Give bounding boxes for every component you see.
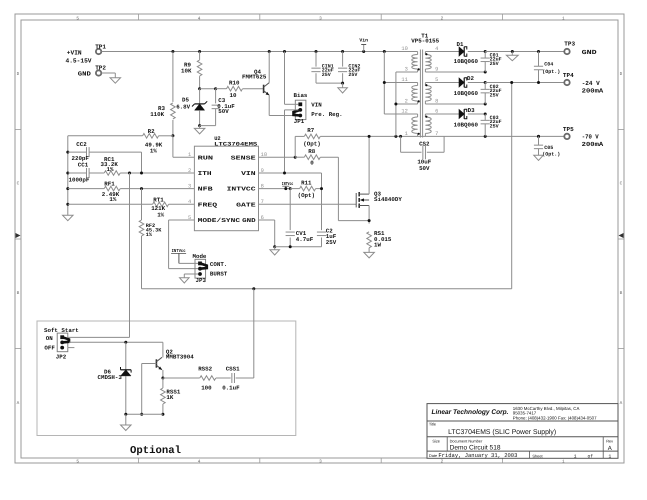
wire soft-start bottom bbox=[126, 413, 163, 415]
svg-text:-70 V: -70 V bbox=[582, 133, 599, 140]
junction rail primary riser bbox=[383, 50, 386, 53]
resistor R7 bbox=[295, 127, 321, 148]
svg-text:Linear Technology Corp.: Linear Technology Corp. bbox=[432, 409, 509, 416]
junction bus D2 bbox=[484, 81, 487, 84]
test point TP1 bbox=[95, 43, 106, 54]
svg-text:Optional: Optional bbox=[130, 445, 181, 457]
junction D6 top bbox=[124, 341, 127, 344]
resistor RC1 bbox=[90, 156, 195, 175]
svg-text:TP4: TP4 bbox=[563, 72, 574, 79]
svg-text:1%: 1% bbox=[157, 212, 164, 219]
svg-text:ON: ON bbox=[46, 335, 53, 342]
svg-text:1%: 1% bbox=[109, 196, 116, 203]
wire D5 node to C3 bbox=[200, 88, 216, 90]
wire R2 to left bus bbox=[68, 135, 143, 137]
resistor R8 bbox=[295, 148, 320, 167]
resistor R11 bbox=[290, 179, 321, 199]
svg-text:MMBT3904: MMBT3904 bbox=[166, 354, 194, 361]
svg-text:25V: 25V bbox=[490, 123, 499, 129]
svg-text:6.8V: 6.8V bbox=[176, 103, 190, 110]
svg-text:Mode: Mode bbox=[193, 253, 207, 260]
svg-text:TP2: TP2 bbox=[95, 65, 106, 72]
svg-text:BURST: BURST bbox=[210, 270, 228, 277]
svg-text:JP1: JP1 bbox=[294, 118, 305, 125]
label Pre. Reg. bbox=[311, 111, 342, 118]
wire -24V row bbox=[485, 82, 564, 84]
junction rail Q4 collector bbox=[268, 50, 271, 53]
svg-text:50V: 50V bbox=[419, 165, 430, 172]
diode D3 10BQ060 bbox=[454, 107, 479, 129]
svg-text:CSS1: CSS1 bbox=[226, 365, 240, 372]
junction bus CC2 bbox=[66, 151, 69, 154]
label JP1 VIN bbox=[311, 102, 322, 109]
wire RS1 to ground bbox=[368, 248, 370, 253]
op-amp U2 LTC3704EMS bbox=[188, 136, 267, 231]
junction D5 top bbox=[198, 87, 201, 90]
svg-text:Phone: (408)432-1900 Fax: (408: Phone: (408)432-1900 Fax: (408)434-0507 bbox=[513, 415, 597, 420]
svg-text:3: 3 bbox=[319, 16, 322, 21]
capacitor C03 bbox=[481, 114, 502, 136]
wire feedback riser to -24V bbox=[511, 83, 513, 289]
wire CSS1 to feedback bbox=[236, 289, 254, 378]
junction rail JP1 bbox=[283, 50, 286, 53]
svg-text:GND: GND bbox=[242, 217, 256, 224]
diode D6 CMDSH-3 bbox=[98, 342, 132, 381]
wire D5 cathode bbox=[199, 89, 201, 104]
wire JP2 OFF stub bbox=[68, 347, 75, 349]
svg-text:GATE: GATE bbox=[236, 201, 256, 208]
test point TP4 bbox=[563, 72, 574, 85]
wire left bus bbox=[67, 136, 69, 215]
svg-text:C: C bbox=[620, 181, 623, 186]
junction rail CIN2 bbox=[341, 50, 344, 53]
svg-text:25V: 25V bbox=[490, 92, 499, 98]
svg-text:10K: 10K bbox=[181, 67, 192, 74]
svg-text:LTC3704EMS: LTC3704EMS bbox=[214, 141, 258, 147]
svg-text:A: A bbox=[17, 401, 20, 406]
svg-text:FREQ: FREQ bbox=[198, 201, 218, 208]
svg-text:200mA: 200mA bbox=[582, 88, 604, 95]
junction rail Vin flag bbox=[362, 50, 365, 53]
net flag INTVcc at JP3 bbox=[171, 248, 198, 263]
junction ITH soft-start bbox=[128, 172, 131, 175]
capacitor CV1 bbox=[286, 189, 314, 247]
svg-text:1: 1 bbox=[609, 454, 612, 460]
junction INTVCC CV1 bbox=[289, 187, 292, 190]
svg-text:D: D bbox=[17, 72, 20, 77]
junction Q2 base bottom bbox=[140, 413, 143, 416]
junction feedback CSS1 bbox=[252, 287, 255, 290]
label -70V bbox=[582, 133, 604, 148]
wire D6 anode bbox=[125, 376, 127, 414]
svg-text:FMMT625: FMMT625 bbox=[242, 74, 267, 81]
svg-text:5: 5 bbox=[76, 16, 79, 21]
svg-text:4.5-15V: 4.5-15V bbox=[66, 57, 92, 64]
wire R7 riser bbox=[294, 136, 296, 157]
svg-text:R11: R11 bbox=[301, 179, 312, 186]
junction NFB RF2 bbox=[140, 187, 143, 190]
junction bus RF1 bbox=[66, 187, 69, 190]
svg-text:Rev: Rev bbox=[606, 438, 613, 443]
junction C05 bbox=[537, 135, 540, 138]
wire JP3 BURST to ground bbox=[184, 274, 198, 278]
junction C3 top bbox=[214, 87, 217, 90]
junction C04 bottom bbox=[537, 81, 540, 84]
capacitor C02 bbox=[481, 83, 502, 105]
svg-text:10: 10 bbox=[401, 46, 407, 52]
jumper JP2 bbox=[57, 333, 69, 352]
optional box bbox=[37, 321, 296, 436]
junction RSS1 bottom bbox=[161, 413, 164, 416]
svg-text:R10: R10 bbox=[229, 79, 240, 86]
wire pin8 to bus bbox=[425, 103, 485, 105]
svg-text:200mA: 200mA bbox=[582, 141, 604, 148]
jumper JP1 bbox=[294, 100, 306, 119]
svg-text:Sheet: Sheet bbox=[532, 453, 543, 458]
wire pin9 to bus bbox=[425, 71, 485, 73]
junction C05 row bbox=[537, 135, 540, 138]
svg-text:25V: 25V bbox=[348, 72, 357, 78]
svg-text:JP3: JP3 bbox=[196, 277, 207, 284]
svg-text:B: B bbox=[17, 291, 20, 296]
svg-text:R7: R7 bbox=[307, 127, 314, 134]
svg-text:A: A bbox=[620, 401, 623, 406]
wire SENSE pin bbox=[259, 156, 296, 158]
junction rail CIN1 bbox=[315, 50, 318, 53]
wire D1 to bus bbox=[468, 51, 485, 53]
title block bbox=[427, 404, 618, 460]
wire NFB to RF2 bbox=[141, 189, 143, 220]
wire JP2 common bbox=[69, 341, 163, 343]
svg-text:NFB: NFB bbox=[198, 186, 214, 193]
wire Q4 emitter bbox=[269, 95, 298, 115]
svg-text:4: 4 bbox=[198, 16, 201, 21]
svg-text:of: of bbox=[588, 454, 594, 460]
capacitor CC1 bbox=[68, 162, 90, 184]
resistor R3 bbox=[150, 103, 175, 119]
svg-text:10BQ060: 10BQ060 bbox=[454, 58, 479, 65]
wire R2 right bbox=[159, 135, 173, 137]
wire feedback row bbox=[142, 288, 512, 290]
svg-text:1: 1 bbox=[574, 454, 577, 460]
svg-text:RT1: RT1 bbox=[153, 196, 164, 203]
junction bus pin9 bbox=[484, 71, 487, 74]
resistor RS1 bbox=[367, 230, 392, 248]
svg-text:25V: 25V bbox=[326, 239, 337, 246]
svg-text:Size: Size bbox=[432, 438, 440, 443]
svg-text:7: 7 bbox=[435, 131, 438, 137]
svg-text:C: C bbox=[17, 181, 20, 186]
wire D3 to bus bbox=[468, 113, 485, 115]
wire Q4 collector bbox=[268, 52, 270, 83]
wire MODE/SYNC to JP3 bbox=[169, 220, 198, 269]
transistor Q3 Si4840DY bbox=[356, 190, 402, 208]
label Bias bbox=[294, 92, 308, 99]
svg-text:R8: R8 bbox=[308, 148, 315, 155]
label Optional bbox=[130, 445, 181, 457]
junction drain Q3 bbox=[368, 135, 371, 138]
wire pin3 to pin1 riser bbox=[396, 72, 418, 136]
wire VIN pin row bbox=[259, 172, 322, 174]
ground soft-start bbox=[121, 414, 132, 430]
junction drain CS2 bbox=[399, 135, 402, 138]
svg-text:0: 0 bbox=[310, 160, 314, 167]
transformer T1 VP5-0155 bbox=[401, 32, 439, 137]
junction C03 bottom bbox=[484, 135, 487, 138]
ground under RS1 bbox=[364, 252, 375, 258]
svg-text:C04: C04 bbox=[544, 62, 553, 68]
svg-text:TP1: TP1 bbox=[95, 43, 106, 50]
wire rail to R3 bbox=[172, 52, 174, 102]
diode D5 zener bbox=[176, 97, 207, 111]
transistor Q2 bbox=[156, 348, 194, 369]
wire D5 anode bbox=[199, 110, 201, 125]
wire GND output row bbox=[485, 51, 564, 53]
junction CIN2 bottom bbox=[341, 82, 344, 85]
svg-text:OFF: OFF bbox=[44, 345, 55, 352]
svg-text:TP5: TP5 bbox=[563, 126, 574, 133]
junction gnd flag bbox=[511, 50, 514, 53]
wire RUN node bbox=[173, 136, 195, 157]
svg-text:CONT.: CONT. bbox=[210, 261, 227, 268]
label +VIN bbox=[67, 50, 82, 57]
svg-text:D2: D2 bbox=[467, 75, 474, 82]
resistor RF1 bbox=[68, 180, 195, 203]
capacitor CIN2 bbox=[338, 52, 360, 84]
svg-text:D: D bbox=[620, 72, 623, 77]
capacitor C3 bbox=[212, 89, 236, 116]
wire C3 bottom bbox=[200, 109, 216, 126]
svg-text:B: B bbox=[620, 291, 623, 296]
wire drain rail bbox=[320, 135, 564, 137]
label 4.5-15V bbox=[66, 57, 92, 64]
label GND bbox=[78, 71, 91, 78]
capacitor C04 bbox=[534, 52, 560, 83]
capacitor C01 bbox=[481, 52, 502, 73]
svg-text:10BQ060: 10BQ060 bbox=[454, 90, 479, 97]
ground flag output bbox=[506, 52, 518, 61]
svg-text:Title: Title bbox=[429, 421, 436, 426]
wire R9 to D5 node bbox=[199, 76, 201, 89]
net flag INTVcc at pin8 bbox=[282, 181, 294, 190]
wire Q3 source bbox=[368, 206, 370, 224]
svg-text:SENSE: SENSE bbox=[231, 154, 257, 161]
wire pin4 to D1 bbox=[425, 51, 459, 53]
junction bus D1 bbox=[484, 50, 487, 53]
svg-text:TP3: TP3 bbox=[564, 41, 575, 48]
ground left bus bbox=[63, 215, 74, 221]
svg-text:C05: C05 bbox=[544, 145, 553, 151]
svg-text:ITH: ITH bbox=[198, 170, 213, 177]
label OFF bbox=[44, 345, 55, 352]
junction Q3 source sense bbox=[368, 219, 371, 222]
junction pin2 riser bbox=[394, 103, 397, 106]
wire TP2 to ground bbox=[102, 73, 116, 78]
wire CIN bottoms bbox=[316, 82, 343, 84]
diode D1 10BQ060 bbox=[454, 41, 479, 65]
wire ground row bbox=[275, 246, 322, 248]
resistor RT1 bbox=[68, 196, 195, 218]
svg-text:Friday, January 31, 2003: Friday, January 31, 2003 bbox=[438, 452, 517, 459]
svg-text:CC2: CC2 bbox=[76, 141, 87, 148]
wire GATE row bbox=[259, 203, 357, 205]
ground under CIN2 bbox=[338, 83, 348, 93]
svg-text:25V: 25V bbox=[322, 72, 331, 78]
wire pin5 to D2 bbox=[425, 82, 459, 84]
svg-text:RUN: RUN bbox=[198, 154, 214, 161]
svg-text:GND: GND bbox=[582, 49, 597, 56]
svg-text:5: 5 bbox=[76, 459, 79, 464]
junction -24V feedback bbox=[510, 81, 513, 84]
svg-text:10: 10 bbox=[230, 92, 237, 99]
svg-text:CMDSH-3: CMDSH-3 bbox=[98, 374, 123, 381]
wire R8 to sense column bbox=[320, 156, 338, 158]
svg-text:25V: 25V bbox=[490, 61, 499, 67]
svg-text:RSS2: RSS2 bbox=[198, 365, 212, 372]
svg-text:1000pF: 1000pF bbox=[69, 176, 90, 183]
resistor R2 bbox=[143, 128, 163, 154]
svg-text:Bias: Bias bbox=[294, 92, 308, 99]
capacitor CIN1 bbox=[311, 52, 333, 84]
wire CC2 to ITH bbox=[141, 152, 143, 173]
junction drain primaries bbox=[394, 135, 397, 138]
junction R11 VIN column bbox=[320, 187, 323, 190]
wire emitter to RSS2 bbox=[163, 377, 200, 379]
wire pin6 to D3 bbox=[425, 113, 459, 115]
label GND out bbox=[582, 49, 597, 56]
junction VIN JP1 bbox=[283, 172, 286, 175]
svg-text:1%: 1% bbox=[107, 166, 114, 173]
test point TP3 bbox=[564, 41, 575, 55]
wire JP1 pin1 to rail bbox=[285, 52, 299, 105]
capacitor CC2 bbox=[68, 141, 142, 162]
svg-text:D1: D1 bbox=[457, 41, 464, 48]
svg-text:D3: D3 bbox=[468, 107, 475, 114]
label JP1 bbox=[294, 118, 305, 125]
junction rail R3 bbox=[171, 50, 174, 53]
resistor RSS1 bbox=[161, 378, 181, 414]
svg-text:R2: R2 bbox=[148, 128, 155, 135]
svg-text:1%: 1% bbox=[150, 147, 157, 154]
resistor RF2 bbox=[139, 220, 162, 238]
ground under U2 bbox=[270, 247, 280, 255]
junction pin11 riser bbox=[383, 81, 386, 84]
junction ITH CC2 bbox=[140, 172, 143, 175]
svg-text:(Opt): (Opt) bbox=[298, 192, 315, 199]
svg-text:INTVCC: INTVCC bbox=[227, 186, 257, 193]
wire Q3 drain bbox=[368, 136, 370, 194]
svg-text:Demo Circuit 518: Demo Circuit 518 bbox=[450, 444, 501, 451]
wire D2 to bus bbox=[468, 82, 485, 84]
svg-text:(Opt.): (Opt.) bbox=[542, 69, 560, 75]
svg-text:100: 100 bbox=[201, 384, 212, 391]
svg-text:50V: 50V bbox=[218, 108, 229, 115]
svg-text:Si4840DY: Si4840DY bbox=[374, 196, 402, 203]
wire RF2 to feedback row bbox=[141, 236, 143, 289]
svg-text:1: 1 bbox=[405, 131, 408, 137]
svg-text:3: 3 bbox=[319, 459, 322, 464]
wire RSS2 to CSS1 bbox=[216, 377, 231, 379]
ground under D5 bbox=[194, 126, 205, 134]
wire Q2 collector bbox=[162, 342, 164, 357]
label Mode bbox=[193, 253, 207, 260]
svg-text:CS2: CS2 bbox=[419, 140, 430, 147]
label BURST bbox=[210, 270, 228, 277]
wire rail to R9 bbox=[199, 52, 201, 60]
junction CV1 ground bbox=[289, 245, 292, 248]
wire Q2 emitter bbox=[162, 370, 164, 378]
junction C04 top bbox=[537, 50, 540, 53]
svg-text:-24 V: -24 V bbox=[582, 80, 600, 87]
svg-text:0.1uF: 0.1uF bbox=[222, 384, 240, 391]
junction bus D3 bbox=[484, 113, 487, 116]
power flag Vin bbox=[359, 38, 368, 52]
svg-text:110K: 110K bbox=[150, 111, 164, 118]
resistor R9 bbox=[181, 60, 202, 76]
wire C3 to R10 bbox=[216, 88, 227, 90]
svg-text:GND: GND bbox=[78, 71, 91, 78]
diode D2 10BQ060 bbox=[454, 75, 479, 97]
label Soft Start bbox=[44, 327, 79, 334]
capacitor CSS1 bbox=[222, 365, 240, 391]
svg-text:2: 2 bbox=[441, 459, 444, 464]
ground at TP2 bbox=[110, 78, 121, 84]
svg-text:CC1: CC1 bbox=[78, 162, 89, 169]
junction bus RT1 bbox=[66, 203, 69, 206]
svg-text:(Opt.): (Opt.) bbox=[542, 151, 560, 157]
svg-text:VIN: VIN bbox=[311, 102, 322, 109]
capacitor CS2 bbox=[417, 140, 431, 172]
svg-text:+VIN: +VIN bbox=[67, 50, 82, 57]
wire R3 to R2 node bbox=[172, 120, 174, 136]
wire Q2 base bbox=[142, 364, 157, 415]
junction D5 bottom bbox=[198, 124, 201, 127]
svg-text:1W: 1W bbox=[374, 241, 381, 248]
svg-text:4.7uF: 4.7uF bbox=[296, 236, 314, 243]
label CONT. bbox=[210, 261, 227, 268]
wire VIN column bbox=[321, 173, 323, 230]
junction rail R9 bbox=[198, 50, 201, 53]
resistor R10 bbox=[227, 79, 243, 99]
svg-text:Vin: Vin bbox=[359, 38, 368, 44]
capacitor C2 bbox=[317, 228, 337, 247]
junction bus pin8 bbox=[484, 103, 487, 106]
test point TP2 bbox=[95, 65, 106, 76]
svg-text:(Opt): (Opt) bbox=[303, 141, 320, 148]
junction bus CC1 bbox=[66, 172, 69, 175]
ground at JP3 bbox=[180, 278, 190, 283]
label JP2 bbox=[56, 354, 67, 361]
label ON bbox=[46, 335, 53, 342]
wire primary tops riser bbox=[384, 52, 417, 115]
test point TP5 bbox=[563, 126, 574, 139]
svg-text:MODE/SYNC: MODE/SYNC bbox=[198, 217, 241, 224]
svg-text:1%: 1% bbox=[146, 232, 153, 238]
svg-text:1: 1 bbox=[188, 152, 191, 158]
capacitor C05 bbox=[534, 136, 560, 157]
svg-text:1: 1 bbox=[562, 16, 565, 21]
svg-text:4: 4 bbox=[198, 459, 201, 464]
wire +VIN rail bbox=[102, 51, 418, 53]
svg-text:A: A bbox=[608, 445, 612, 452]
svg-text:1: 1 bbox=[562, 459, 565, 464]
junction SENSE R7 bbox=[294, 156, 297, 159]
wire JP1 common to VIN pin bbox=[285, 110, 299, 173]
wire sense column bbox=[338, 157, 369, 220]
wire R10 to Q4 base bbox=[243, 88, 264, 90]
svg-text:Pre. Reg.: Pre. Reg. bbox=[311, 111, 342, 118]
svg-text:2: 2 bbox=[441, 16, 444, 21]
